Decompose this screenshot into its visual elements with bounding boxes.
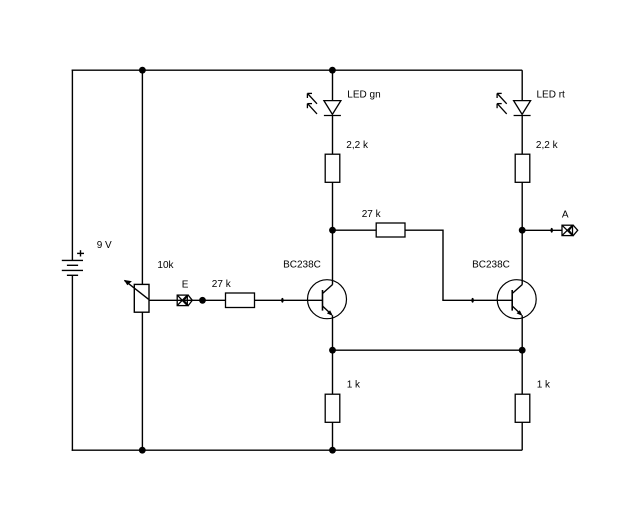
wire: bottom rail [72, 449, 523, 451]
wire: resistor 1k right to bottom rail [521, 422, 523, 450]
connector A [562, 225, 578, 235]
label: BC238C (Q1) [283, 259, 321, 270]
wire: output to connector A [522, 229, 562, 231]
connector E [177, 295, 192, 306]
wire: feedback from Q1 collector to resistor 27k [333, 229, 377, 231]
wire: LED rt to resistor 2,2k [521, 116, 523, 155]
svg-text:BC238C: BC238C [472, 259, 510, 270]
junction: top rail / Q1 branch [329, 67, 336, 74]
svg-text:LED gn: LED gn [347, 90, 380, 101]
junction: E node [199, 297, 206, 304]
potentiometer 10k [124, 280, 149, 312]
battery 9V [62, 250, 84, 275]
wire: resistor 1k left to bottom rail [332, 422, 334, 450]
junction: bottom rail / Q1 branch [329, 447, 336, 454]
svg-text:10k: 10k [157, 260, 174, 271]
svg-text:2,2 k: 2,2 k [346, 140, 369, 151]
resistor 1k (right) [515, 394, 530, 422]
wire: E node to resistor 27k [203, 299, 226, 301]
svg-text:LED rt: LED rt [537, 90, 566, 101]
resistor 27k (feedback) [376, 223, 405, 237]
wire: left rail lower (battery -) [71, 275, 73, 451]
junction: Q1 collector node [329, 227, 336, 234]
junction: Q2 emitter node [519, 347, 526, 354]
junction: bottom rail / pot branch [139, 447, 146, 454]
label: A [562, 210, 569, 221]
LED gn [307, 93, 341, 115]
svg-text:A: A [562, 210, 569, 221]
svg-text:BC238C: BC238C [283, 259, 321, 270]
wire: Q1 emitter down [332, 315, 334, 394]
wire: Q1 collector branch top [332, 70, 334, 100]
wire: feedback to Q2 base [442, 299, 512, 301]
transistor Q1 BC238C [308, 280, 347, 319]
tick: wire joint on Q1 base wire [281, 298, 283, 303]
junction: top rail / pot branch [139, 67, 146, 74]
wire: feedback vertical [442, 230, 444, 301]
resistor 1k (left) [325, 394, 340, 422]
label: 9 V [97, 240, 112, 251]
label: BC238C (Q2) [472, 259, 510, 270]
svg-text:9 V: 9 V [97, 240, 112, 251]
wire: Q2 emitter down [521, 315, 523, 394]
wire: potentiometer branch lower [141, 312, 143, 450]
resistor 27k (Q1 base) [226, 293, 255, 308]
tick: wire joint on output wire [551, 228, 553, 233]
resistor 2,2k (right) [515, 154, 530, 182]
tick: wire joint on Q2 base wire [471, 298, 473, 303]
wire: resistor 2,2k to Q1 collector [332, 182, 334, 284]
label: 1 k (right) [537, 380, 551, 391]
wire: resistor 2,2k to Q2 collector [521, 182, 523, 284]
junction: Q1 emitter node [329, 347, 336, 354]
wire: Q2 collector branch top [521, 70, 523, 100]
label: 10k [157, 260, 174, 271]
svg-text:27 k: 27 k [212, 279, 232, 290]
wire: wiper to E node [149, 299, 203, 301]
wire: left rail upper (battery +) [71, 70, 73, 261]
svg-text:E: E [182, 280, 189, 291]
label: 2,2 k (left) [346, 140, 369, 151]
resistor 2,2k (left) [325, 154, 340, 182]
wire: top rail [72, 69, 523, 71]
svg-text:1 k: 1 k [347, 380, 361, 391]
svg-text:1 k: 1 k [537, 380, 551, 391]
label: E [182, 280, 189, 291]
label: LED rt [537, 90, 566, 101]
wire: resistor 27k to Q1 base [255, 299, 323, 301]
label: 1 k (left) [347, 380, 361, 391]
label: 27 k (Q1 base) [212, 279, 232, 290]
LED rt [497, 93, 530, 115]
wire: LED gn to resistor 2,2k [332, 116, 334, 155]
wire: feedback resistor to corner [405, 229, 443, 231]
wire: emitter bus [333, 349, 523, 351]
wire: potentiometer branch upper [141, 70, 143, 284]
label: LED gn [347, 90, 380, 101]
label: 2,2 k (right) [536, 140, 559, 151]
label: 27 k (feedback) [362, 209, 382, 220]
junction: Q2 collector node (output) [519, 227, 526, 234]
svg-text:27 k: 27 k [362, 209, 382, 220]
svg-text:2,2 k: 2,2 k [536, 140, 559, 151]
transistor Q2 BC238C [497, 280, 536, 319]
